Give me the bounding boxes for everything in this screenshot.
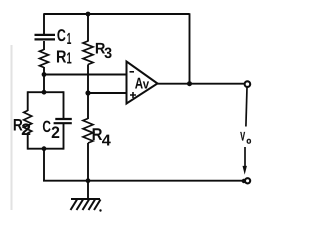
wire tank box left edge lower <box>27 133 29 150</box>
terminal: output + <box>245 81 251 87</box>
wire R4 bottom <box>87 143 89 181</box>
wire R3 top <box>87 14 89 42</box>
svg-text:1: 1 <box>67 30 72 48</box>
svg-text:2: 2 <box>21 120 31 139</box>
svg-text:v: v <box>143 76 150 91</box>
wire op-amp output <box>158 83 245 85</box>
op-amp U1 (Av) <box>127 62 158 104</box>
wire node C to non-inverting input <box>88 92 127 94</box>
svg-text:V: V <box>240 129 245 143</box>
svg-text:C: C <box>57 26 66 45</box>
resistor R1 <box>40 46 72 67</box>
wire bottom ground rail <box>43 180 244 182</box>
wire node B down to tank <box>43 75 45 93</box>
node: tank bottom junction <box>42 146 47 151</box>
svg-text:3: 3 <box>104 45 112 62</box>
svg-text:1: 1 <box>67 49 72 67</box>
wire tank box right edge upper <box>63 91 65 119</box>
resistor R4 <box>83 119 111 150</box>
svg-text:4: 4 <box>102 133 111 150</box>
ground stub wire <box>87 181 89 199</box>
label Vo <box>240 129 251 145</box>
node: output/feedback junction <box>187 81 192 86</box>
node: top of R3 junction <box>86 12 91 17</box>
wire tank box left edge upper <box>27 91 29 111</box>
wire left branch top <box>43 13 45 35</box>
wire R1 bottom to node B <box>43 67 45 75</box>
svg-text:C: C <box>42 118 51 136</box>
wire tank box top edge <box>28 91 64 93</box>
wire terminal down to Vo <box>246 88 247 127</box>
wire tank box right edge lower <box>63 123 65 149</box>
node C junction <box>85 90 90 95</box>
wire top rail <box>44 13 190 15</box>
capacitor C1 <box>35 26 72 48</box>
wire tank bottom to ground rail <box>43 149 45 181</box>
resistor R2 <box>13 111 32 140</box>
wire C1 to R1 <box>43 41 45 50</box>
svg-text:o: o <box>246 135 251 145</box>
wire tank box bottom edge <box>28 148 64 150</box>
node B junction <box>42 72 47 77</box>
capacitor C2 <box>42 118 71 142</box>
wire R3 bottom to node C <box>87 65 89 94</box>
arrow Vo polarity <box>243 147 247 175</box>
svg-text:R: R <box>56 46 67 66</box>
svg-text:2: 2 <box>51 123 60 142</box>
ground <box>71 199 102 212</box>
scan fold artifact <box>11 45 13 210</box>
wire node C down to R4 <box>87 93 89 119</box>
node: tank top junction <box>42 90 47 95</box>
terminal: output - (bottom) <box>242 178 251 183</box>
wire node B to inverting input <box>44 74 127 76</box>
node: ground rail junction <box>86 178 91 183</box>
resistor R3 <box>83 41 112 65</box>
wire feedback vertical <box>189 13 191 83</box>
